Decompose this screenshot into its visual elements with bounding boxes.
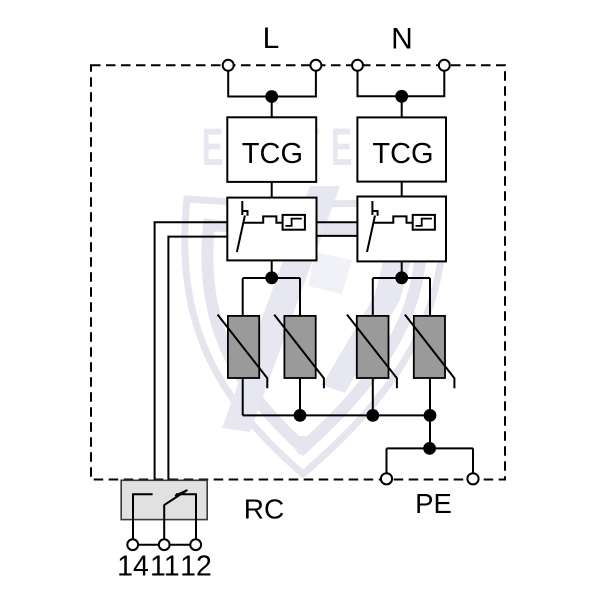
svg-text:TCG: TCG (372, 138, 433, 170)
disconnector F1 (227, 198, 316, 261)
svg-text:L: L (263, 22, 280, 55)
junction dot bus 3 (424, 409, 437, 422)
svg-text:RC: RC (244, 494, 284, 525)
varistor RV1 (218, 315, 268, 389)
wire F1 to RC riser 1 (155, 222, 228, 480)
dashed enclosure border (91, 65, 505, 479)
wire varistor bottoms to bus (243, 378, 430, 415)
junction dot PE (423, 442, 436, 455)
TCG module U1 (227, 117, 316, 182)
wire ground bus (243, 414, 430, 416)
terminal 14 (127, 539, 138, 550)
wire U1 to disconnector F1 (271, 182, 273, 198)
svg-text:14: 14 (117, 551, 149, 583)
wire F2 to varistor branch N (373, 261, 430, 316)
terminal N1 (352, 60, 363, 71)
junction dot branch L (265, 271, 278, 284)
wire F1 to F2 link (317, 222, 358, 236)
wire RC terminal link (133, 544, 196, 546)
remote contact RC box (121, 480, 207, 539)
terminal L1 (223, 60, 234, 71)
terminal PE1 (381, 473, 392, 484)
terminal 12 (190, 539, 201, 550)
terminal 11 (159, 539, 170, 550)
svg-text:PE: PE (415, 488, 452, 519)
wire F1 to varistor branch L (243, 260, 300, 316)
varistor RV4 (405, 315, 455, 389)
svg-text:TCG: TCG (242, 138, 303, 170)
wire N terminals to junction (358, 71, 445, 117)
junction dot bus 1 (294, 409, 307, 422)
svg-text:N: N (391, 23, 413, 56)
wire F1 to RC riser 2 (168, 237, 227, 480)
disconnector F2 (357, 197, 446, 262)
watermark chevron (287, 436, 312, 455)
junction dot L (265, 90, 278, 103)
watermark lightning bolt (222, 186, 340, 432)
wire U2 to disconnector F2 (401, 182, 403, 197)
varistor RV2 (274, 315, 324, 389)
wire bus to PE split (387, 415, 474, 473)
terminal PE2 (467, 473, 478, 484)
junction dot bus 2 (366, 409, 379, 422)
watermark EZETEK text (202, 118, 399, 177)
terminal L2 (310, 60, 321, 71)
wire L terminals to junction (228, 71, 316, 118)
TCG module U2 (357, 117, 446, 181)
junction dot branch N (395, 271, 408, 284)
svg-text:11: 11 (150, 551, 180, 583)
watermark shield outer outline (185, 199, 444, 474)
varistor RV3 (347, 315, 397, 389)
terminal N2 (439, 60, 450, 71)
svg-text:12: 12 (180, 551, 212, 583)
junction dot N (395, 90, 408, 103)
watermark shield inner outline (207, 225, 421, 448)
